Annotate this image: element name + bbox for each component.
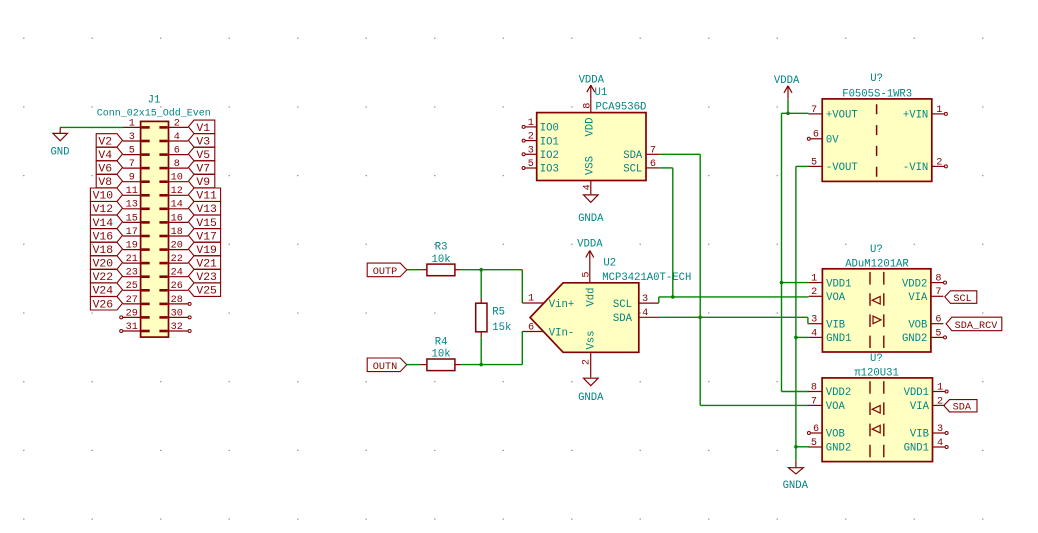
ADuM isolation barrier: [870, 272, 884, 348]
ADuM reference U?: [870, 244, 883, 256]
IC U1 PCA9536D body: [537, 113, 646, 181]
svg-text:22: 22: [171, 254, 183, 265]
hier label V22: [90, 269, 122, 284]
J1 pin 29: [120, 308, 150, 319]
pi120 pin 1 VDD1: [904, 382, 949, 399]
svg-text:8: 8: [174, 159, 180, 170]
svg-text:1: 1: [936, 105, 942, 116]
svg-text:V9: V9: [196, 177, 210, 189]
svg-text:4: 4: [642, 308, 648, 319]
svg-text:23: 23: [126, 268, 138, 279]
hier label V20: [90, 256, 122, 271]
svg-text:V7: V7: [196, 164, 210, 176]
J1 pin 1: [123, 118, 150, 129]
svg-text:11: 11: [126, 186, 138, 197]
ADuM pin 4 GND1: [809, 328, 852, 345]
svg-text:V17: V17: [196, 231, 217, 243]
ADuM pin 3 VIB: [809, 315, 845, 332]
J1 pin 18: [159, 227, 188, 238]
U1 pin 5 IO3: [522, 159, 559, 176]
pi120 pin 7 VOA: [808, 396, 845, 413]
svg-text:3: 3: [642, 294, 648, 305]
svg-text:U2: U2: [603, 257, 616, 269]
J1 pin 17: [123, 227, 150, 238]
svg-text:5: 5: [811, 157, 817, 168]
U2 reference: [603, 257, 616, 269]
wire OUTN to R4: [407, 364, 421, 366]
svg-text:V5: V5: [196, 150, 210, 162]
U2 pin 5 Vdd: [581, 269, 597, 306]
svg-text:V16: V16: [93, 231, 114, 243]
power symbol GND: [50, 127, 69, 158]
power symbol VDDA rail top: [774, 75, 800, 99]
svg-text:3: 3: [937, 424, 943, 435]
svg-text:VIn-: VIn-: [549, 327, 574, 339]
hier label V13: [188, 202, 220, 217]
svg-text:OUTP: OUTP: [373, 267, 397, 278]
svg-text:GND1: GND1: [904, 443, 929, 455]
resistor R5: [476, 298, 512, 337]
hier label V18: [90, 242, 122, 257]
svg-text:VDD2: VDD2: [826, 387, 851, 399]
svg-text:V4: V4: [98, 150, 112, 162]
J1 pin 16: [159, 213, 188, 224]
svg-text:U?: U?: [870, 73, 883, 85]
hier label V3: [188, 134, 214, 149]
U2 pin 4 SDA: [613, 308, 658, 325]
svg-text:1: 1: [528, 118, 534, 129]
svg-text:V13: V13: [196, 204, 217, 216]
hier label V24: [90, 283, 122, 298]
svg-text:1: 1: [129, 118, 135, 129]
svg-text:24: 24: [171, 268, 183, 279]
svg-text:15k: 15k: [492, 322, 511, 334]
svg-text:17: 17: [126, 227, 138, 238]
U2 pin 6 Vin-: [522, 322, 574, 339]
svg-text:V10: V10: [93, 191, 114, 203]
svg-text:V20: V20: [93, 259, 114, 271]
svg-text:7: 7: [650, 145, 656, 156]
junction GNDA pi120: [794, 445, 798, 449]
wire junction down to R5: [480, 270, 482, 298]
U1 pin 3 IO2: [522, 145, 559, 162]
svg-text:3: 3: [129, 132, 135, 143]
IC U? pi120U31 body: [822, 378, 932, 462]
pi120 reference U?: [870, 353, 883, 365]
hier label V6: [96, 161, 122, 176]
svg-text:2: 2: [174, 118, 180, 129]
junction SCL: [671, 295, 675, 299]
IC U? F0505S-1WR3 body: [822, 99, 932, 181]
svg-text:V2: V2: [98, 136, 112, 148]
U1 pin 8 VDD: [582, 99, 596, 137]
J1 pin 32: [159, 322, 191, 333]
J1 pin 20: [159, 241, 188, 252]
pi120 pin 5 GND2: [808, 438, 851, 455]
svg-text:7: 7: [811, 396, 817, 407]
power symbol VDDA above U1: [579, 75, 605, 99]
svg-text:8: 8: [582, 103, 593, 109]
svg-text:VOA: VOA: [826, 401, 846, 413]
svg-text:3: 3: [811, 315, 817, 326]
svg-text:V24: V24: [93, 286, 114, 298]
svg-text:V12: V12: [93, 204, 114, 216]
svg-text:ADuM1201AR: ADuM1201AR: [845, 258, 909, 270]
hier label V25: [188, 283, 220, 298]
svg-text:MCP3421A0T-ECH: MCP3421A0T-ECH: [602, 272, 691, 284]
svg-text:14: 14: [171, 200, 183, 211]
svg-text:4: 4: [174, 132, 180, 143]
svg-text:VOA: VOA: [826, 292, 846, 304]
J1 pin 19: [123, 241, 150, 252]
hier label V21: [188, 256, 220, 271]
F0505 pin 1 +VIN: [903, 105, 948, 122]
wire to U2 Vin-: [521, 332, 523, 365]
U1 pin 4 VSS: [582, 156, 596, 194]
pi120 pin 3 VIB: [910, 424, 948, 441]
svg-text:SCL: SCL: [953, 294, 971, 305]
svg-text:VIA: VIA: [910, 401, 930, 413]
svg-text:7: 7: [935, 287, 941, 298]
resistor R4: [421, 336, 462, 370]
hier label V9: [188, 174, 214, 189]
J1 pin 14: [159, 200, 188, 211]
junction GNDA ADuM: [794, 336, 798, 340]
pi120 isolation barrier: [870, 381, 884, 457]
J1 pin 5: [123, 146, 150, 157]
power symbol GNDA below U1: [578, 195, 604, 225]
wire U1 SDA down: [660, 154, 701, 405]
J1 pin 22: [159, 254, 188, 265]
svg-text:2: 2: [582, 359, 593, 365]
hier label V19: [188, 242, 220, 257]
svg-text:SDA: SDA: [953, 403, 972, 414]
pi120 pin 6 VOB: [807, 424, 844, 441]
svg-text:OUTN: OUTN: [373, 362, 397, 373]
svg-text:26: 26: [171, 281, 183, 292]
svg-text:U?: U?: [870, 353, 883, 365]
svg-text:VDD1: VDD1: [826, 278, 851, 290]
connector J1 body: [141, 121, 169, 337]
svg-text:0V: 0V: [826, 135, 839, 147]
svg-text:10: 10: [171, 173, 183, 184]
svg-text:32: 32: [171, 322, 183, 333]
junction VDDA ADuM: [780, 281, 784, 285]
svg-text:16: 16: [171, 213, 183, 224]
hier label V16: [90, 229, 122, 244]
J1 pin 8: [159, 159, 188, 170]
svg-text:V19: V19: [196, 245, 217, 257]
svg-text:V21: V21: [196, 259, 217, 271]
F0505 pin 2 -VIN: [903, 157, 948, 174]
svg-text:VDDA: VDDA: [577, 239, 603, 251]
svg-text:GND2: GND2: [902, 333, 927, 345]
ADuM pin 6 VOB: [908, 315, 943, 332]
power symbol GNDA bottom: [783, 461, 809, 492]
F0505 value: [842, 89, 912, 101]
svg-text:2: 2: [528, 132, 534, 143]
svg-text:7: 7: [811, 105, 817, 116]
svg-text:V15: V15: [196, 218, 217, 230]
pi120 value: [854, 368, 899, 380]
svg-text:7: 7: [129, 159, 135, 170]
svg-text:13: 13: [126, 200, 138, 211]
svg-text:V6: V6: [98, 164, 112, 176]
J1 pin 15: [123, 213, 150, 224]
ADuM pin 7 VIA: [908, 287, 943, 304]
ADuM pin 1 VDD1: [809, 274, 852, 291]
U2 value MCP3421A0T-ECH: [602, 272, 691, 284]
IC U? ADuM1201AR body: [822, 269, 931, 352]
J1 pin 2: [159, 118, 188, 129]
svg-text:6: 6: [813, 424, 819, 435]
svg-text:π120U31: π120U31: [854, 368, 899, 380]
svg-text:18: 18: [171, 227, 183, 238]
svg-text:1: 1: [937, 382, 943, 393]
svg-text:8: 8: [811, 382, 817, 393]
svg-text:-VOUT: -VOUT: [826, 162, 858, 174]
svg-text:2: 2: [936, 157, 942, 168]
svg-text:SCL: SCL: [613, 299, 632, 311]
svg-text:V14: V14: [93, 218, 114, 230]
U1 reference: [595, 87, 608, 99]
wire U1 SCL down: [660, 168, 673, 297]
svg-text:GNDA: GNDA: [783, 480, 809, 492]
svg-text:8: 8: [935, 274, 941, 285]
svg-text:6: 6: [528, 322, 534, 333]
F0505 pin 6 0V: [807, 130, 839, 147]
hier label V4: [96, 147, 122, 162]
svg-text:SDA_RCV: SDA_RCV: [955, 321, 999, 332]
svg-text:6: 6: [650, 159, 656, 170]
J1 pin 11: [123, 186, 150, 197]
svg-text:10k: 10k: [432, 349, 451, 361]
svg-text:27: 27: [126, 295, 138, 306]
J1 pin 23: [123, 268, 150, 279]
hier label V10: [90, 188, 122, 203]
U1 pin 6 SCL: [623, 159, 659, 176]
resistor R3: [421, 242, 462, 276]
svg-text:SCL: SCL: [623, 164, 642, 176]
power symbol GNDA below U2: [578, 378, 604, 404]
hier label V14: [90, 215, 122, 230]
svg-text:20: 20: [171, 241, 183, 252]
global label SDA: [944, 400, 977, 414]
svg-text:12: 12: [171, 186, 183, 197]
svg-text:4: 4: [582, 184, 593, 190]
svg-text:6: 6: [935, 315, 941, 326]
junction at R3/R5: [479, 268, 483, 272]
wire SCL bus to ADuM VOA: [659, 297, 809, 303]
svg-text:4: 4: [937, 438, 943, 449]
svg-text:R4: R4: [435, 336, 448, 348]
svg-text:2: 2: [811, 287, 817, 298]
svg-text:15: 15: [126, 213, 138, 224]
connector J1 value Conn_02x15_Odd_Even: [97, 108, 211, 120]
svg-text:V1: V1: [196, 123, 210, 135]
J1 pin 26: [159, 281, 188, 292]
svg-text:V11: V11: [196, 191, 217, 203]
svg-text:Vin+: Vin+: [549, 299, 574, 311]
svg-text:J1: J1: [148, 94, 161, 106]
J1 pin 12: [159, 186, 188, 197]
global label SDA_RCV: [946, 317, 1002, 332]
U2 pin 3 SCL: [613, 294, 659, 311]
svg-text:V8: V8: [98, 177, 112, 189]
hier label V5: [188, 147, 214, 162]
svg-text:V23: V23: [196, 272, 217, 284]
svg-text:IO2: IO2: [540, 150, 559, 162]
svg-text:VDD: VDD: [584, 117, 596, 136]
svg-text:1: 1: [811, 274, 817, 285]
svg-text:IO1: IO1: [540, 136, 559, 148]
svg-text:29: 29: [126, 308, 138, 319]
global label SCL: [945, 291, 977, 305]
J1 pin 27: [123, 295, 150, 306]
svg-text:SDA: SDA: [623, 150, 643, 162]
svg-text:19: 19: [126, 241, 138, 252]
U2 pin 2 Vss: [582, 330, 598, 377]
svg-text:4: 4: [811, 328, 817, 339]
svg-text:9: 9: [129, 173, 135, 184]
hier label V26: [90, 297, 122, 312]
U1 pin 1 IO0: [522, 118, 559, 135]
ADuM pin 8 VDD2: [902, 274, 947, 291]
svg-text:GNDA: GNDA: [578, 392, 604, 404]
svg-text:R5: R5: [492, 307, 505, 319]
svg-text:VIA: VIA: [908, 292, 928, 304]
wire R4 to junction: [461, 364, 522, 366]
pi120 pin 8 VDD2: [808, 382, 851, 399]
svg-text:5: 5: [935, 328, 941, 339]
IC U2 MCP3421A0T-ECH body: [530, 283, 639, 353]
svg-text:Conn_02x15_Odd_Even: Conn_02x15_Odd_Even: [97, 108, 211, 120]
U1 pin 7 SDA: [623, 145, 659, 162]
F0505 pin 5 -VOUT: [809, 157, 858, 174]
hier label V23: [188, 269, 220, 284]
svg-text:30: 30: [171, 308, 183, 319]
pi120 pin 4 GND1: [904, 438, 949, 455]
svg-text:1: 1: [528, 294, 534, 305]
J1 pin 3: [123, 132, 150, 143]
svg-text:Vss: Vss: [585, 330, 597, 349]
svg-text:2: 2: [937, 396, 943, 407]
svg-text:VSS: VSS: [584, 156, 596, 175]
svg-text:Vdd: Vdd: [585, 287, 597, 306]
U1 pin 2 IO1: [522, 132, 559, 149]
hier label V1: [188, 120, 214, 135]
U1 value PCA9536D: [596, 101, 647, 113]
svg-text:F0505S-1WR3: F0505S-1WR3: [842, 89, 912, 101]
ADuM pin 5 GND2: [902, 328, 947, 345]
svg-text:5: 5: [528, 159, 534, 170]
global label OUTN: [367, 358, 407, 373]
svg-text:6: 6: [813, 130, 819, 141]
svg-text:GND: GND: [50, 146, 69, 158]
J1 pin 30: [159, 308, 191, 319]
svg-text:6: 6: [174, 146, 180, 157]
J1 pin 9: [123, 173, 150, 184]
ADuM channel A buffer: [872, 297, 880, 305]
power symbol VDDA above U2: [577, 239, 603, 270]
J1 pin 4: [159, 132, 188, 143]
svg-text:GND2: GND2: [826, 443, 851, 455]
svg-text:IO0: IO0: [540, 123, 559, 135]
svg-text:+VOUT: +VOUT: [826, 110, 858, 122]
svg-text:SDA: SDA: [613, 313, 633, 325]
svg-text:V18: V18: [93, 245, 114, 257]
ADuM value ADuM1201AR: [845, 258, 909, 270]
hier label V17: [188, 229, 220, 244]
svg-text:28: 28: [171, 295, 183, 306]
svg-text:V25: V25: [196, 286, 217, 298]
J1 pin 25: [123, 281, 150, 292]
svg-text:V3: V3: [196, 136, 210, 148]
pi120 channel A buffer: [872, 406, 880, 414]
svg-text:R3: R3: [435, 242, 448, 254]
svg-text:GNDA: GNDA: [578, 213, 604, 225]
svg-text:5: 5: [811, 438, 817, 449]
svg-text:V22: V22: [93, 272, 114, 284]
J1 pin 21: [123, 254, 150, 265]
svg-text:VDD2: VDD2: [902, 278, 927, 290]
svg-text:21: 21: [126, 254, 138, 265]
hier label V15: [188, 215, 220, 230]
U2 pin 1 Vin+: [522, 294, 574, 311]
svg-text:PCA9536D: PCA9536D: [596, 101, 647, 113]
global label OUTP: [367, 263, 407, 278]
svg-text:VDDA: VDDA: [774, 75, 800, 87]
svg-text:31: 31: [126, 322, 138, 333]
J1 pin 28: [159, 295, 191, 306]
svg-text:U?: U?: [870, 244, 883, 256]
wire R3 to junction: [461, 269, 522, 271]
svg-text:3: 3: [528, 145, 534, 156]
junction VDDA F0505: [786, 112, 790, 116]
ADuM channel B buffer: [873, 316, 881, 324]
J1 pin 31: [120, 322, 150, 333]
hier label V8: [96, 174, 122, 189]
hier label V2: [96, 134, 122, 149]
svg-text:VOB: VOB: [908, 319, 927, 331]
hier label V12: [90, 202, 122, 217]
hier label V7: [188, 161, 214, 176]
wire R5 to OUTN net: [480, 337, 482, 364]
svg-text:+VIN: +VIN: [903, 110, 928, 122]
svg-text:VOB: VOB: [826, 429, 845, 441]
J1 pin 7: [123, 159, 150, 170]
svg-text:-VIN: -VIN: [903, 162, 928, 174]
svg-text:VDDA: VDDA: [579, 75, 605, 87]
wire to U2 Vin+: [521, 270, 523, 303]
svg-text:IO3: IO3: [540, 164, 559, 176]
J1 pin 10: [159, 173, 188, 184]
J1 pin 24: [159, 268, 188, 279]
wire VDDA rail: [782, 99, 809, 392]
J1 pin 6: [159, 146, 188, 157]
hier label V11: [188, 188, 220, 203]
svg-text:VDD1: VDD1: [904, 387, 929, 399]
pi120 channel B buffer: [872, 425, 880, 433]
connector J1 reference: [148, 94, 161, 106]
svg-text:25: 25: [126, 281, 138, 292]
svg-text:5: 5: [129, 146, 135, 157]
wire GNDA rail: [796, 166, 810, 461]
wire J1 pin1 to GND: [60, 126, 123, 128]
wire SDA bus to ADuM VIB: [658, 317, 809, 323]
wire OUTP to R3: [407, 269, 421, 271]
J1 pin 13: [123, 200, 150, 211]
